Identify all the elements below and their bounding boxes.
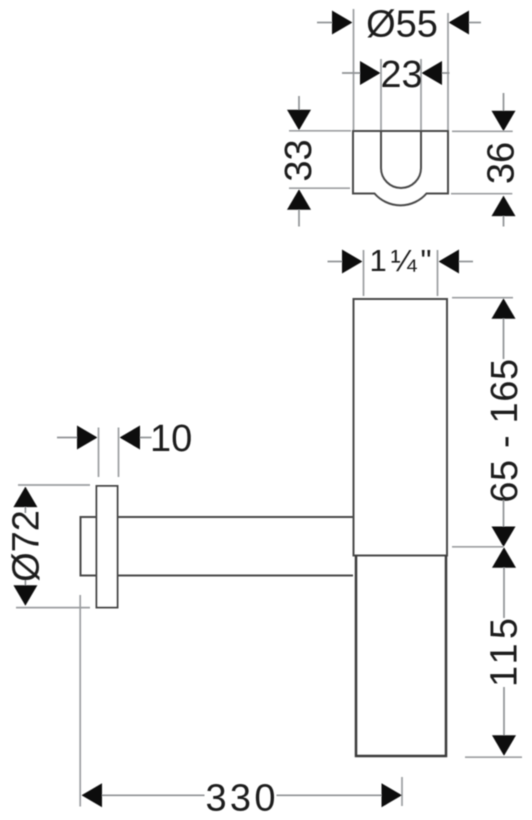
dimension 10 right tail line (140, 437, 152, 439)
svg-text:Ø55: Ø55 (366, 3, 438, 45)
extension line bottom of dimension 115 (465, 756, 522, 758)
dimension 36 top arrow pointing down (492, 111, 516, 132)
U-slot cutout in escutcheon (381, 131, 421, 188)
dimension 330 left arrow (82, 783, 103, 807)
dimension 33 top arrow pointing down (287, 110, 311, 131)
dimension 10 left tail line (57, 437, 78, 439)
dimension 115 down arrow (492, 735, 516, 756)
extension line top of dimension Ø72 (18, 484, 90, 486)
dimension 23 left arrow (360, 61, 381, 85)
dimension Ø72 up arrow (13, 487, 37, 508)
dimension 10 right arrow (120, 426, 141, 450)
wall pipe stub left of flange (81, 517, 97, 576)
dimension 65-165 down arrow (bowtie top) (492, 527, 516, 548)
svg-text:65 - 165: 65 - 165 (484, 359, 526, 503)
extension line right of dimension 330 (trap centre) (401, 777, 403, 806)
dimension 36 bottom arrow pointing up (492, 196, 516, 217)
extension line right of dimension 1 1/4 inch (437, 250, 439, 296)
svg-text:115: 115 (484, 618, 526, 687)
svg-text:23: 23 (380, 54, 422, 96)
dimension Ø55 right tail line (469, 22, 481, 24)
svg-text:10: 10 (150, 418, 192, 460)
dimension Ø55 right arrow (449, 11, 470, 35)
svg-text:33: 33 (278, 139, 320, 181)
dimension 1 1/4 inch right arrow (439, 250, 460, 274)
dimension Ø72 down arrow (13, 585, 37, 606)
svg-text:330: 330 (206, 778, 276, 820)
extension line right of dimension 10 (118, 428, 120, 478)
dimension 330 right arrow (382, 783, 403, 807)
dimension 65-165 upper line (503, 319, 505, 360)
extension line left of dimension 10 (98, 428, 100, 478)
extension line bottom of dimension 33 (289, 187, 350, 189)
dimension 36 lower line stub (503, 216, 505, 227)
dimension Ø55 left tail line (317, 22, 333, 24)
extension line left of dimension 23 (380, 59, 382, 130)
trap body cylinder (lower) (356, 556, 446, 757)
dimension 1 1/4 inch left tail line (328, 261, 344, 263)
horizontal wall pipe bottom edge (118, 575, 354, 577)
dimension 65-165 lower line (503, 500, 505, 527)
dimension Ø55 left arrow (332, 11, 353, 35)
extension line at trap shoulder (bowtie) (452, 546, 504, 548)
dimension 330 right line (277, 794, 382, 796)
extension line bottom of dimension 36 (451, 193, 512, 195)
wall flange disc (side view) (97, 486, 118, 608)
dimension Ø72 lower line stub (24, 580, 26, 586)
dimension 33 upper line stub (298, 96, 300, 111)
extension line top of dimension 65-165 (452, 297, 513, 299)
dimension 115 lower line (503, 687, 505, 737)
wall escutcheon front view (top) (353, 131, 448, 205)
extension line right of dimension 23 (420, 59, 422, 130)
extension line left of dimension Ø55 (353, 9, 355, 130)
svg-text:Ø72: Ø72 (5, 510, 47, 582)
dimension 33 bottom arrow pointing up (287, 189, 311, 210)
extension line left of dimension 1 1/4 inch (363, 250, 365, 296)
dimension 65-165 up arrow (492, 298, 516, 319)
dimension 1 1/4 inch right tail line (459, 261, 473, 263)
horizontal wall pipe top edge (118, 516, 354, 518)
dimension 23 right arrow (422, 61, 443, 85)
dimension 1 1/4 inch left arrow (342, 250, 363, 274)
dimension 330 left line (102, 794, 205, 796)
dimension 36 upper line stub (503, 93, 505, 111)
dimension 23 right tail line (442, 72, 450, 74)
extension line right of dimension Ø55 (447, 13, 449, 130)
dimension 115 up arrow (bowtie bottom) (492, 547, 516, 568)
extension line top of dimension 33 (289, 130, 351, 132)
extension line top of dimension 36 (452, 130, 513, 132)
svg-text:1 ¼ ": 1 ¼ " (370, 243, 432, 278)
svg-text:36: 36 (481, 142, 523, 184)
extension line left of dimension 330 (wall plane) (79, 595, 81, 807)
outlet pipe vertical (upper body) (354, 299, 448, 556)
dimension 23 left tail line (342, 72, 360, 74)
dimension 115 upper line (503, 568, 505, 619)
dimension 33 lower line stub (298, 210, 300, 227)
extension line bottom of dimension Ø72 (16, 607, 90, 609)
dimension 10 left arrow (77, 426, 98, 450)
dimension Ø72 upper line stub (24, 507, 26, 513)
